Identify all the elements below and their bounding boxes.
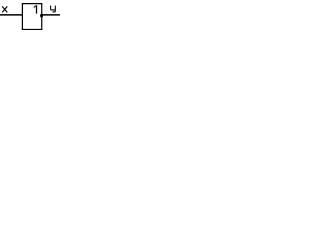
wire output to y xyxy=(41,14,60,16)
node junction dot xyxy=(40,14,43,18)
gate box U1 xyxy=(22,4,43,30)
node y label xyxy=(50,6,55,12)
wire input from x xyxy=(0,14,22,16)
node x label xyxy=(2,6,7,12)
logic buffer gate diagram xyxy=(0,0,60,33)
label 1 xyxy=(34,5,37,13)
